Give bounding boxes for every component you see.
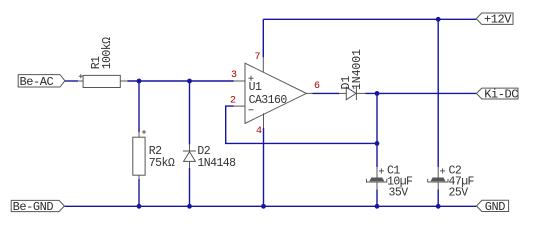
resistor R2 <box>133 130 175 179</box>
node junction R1/D2 <box>187 79 192 84</box>
wire D1 to Ki-DC <box>366 92 477 94</box>
wire C2 bottom <box>437 189 439 206</box>
svg-text:Be-AC: Be-AC <box>20 75 54 89</box>
svg-text:100kΩ: 100kΩ <box>101 37 114 69</box>
node junction +12V rail / C2 <box>436 17 441 22</box>
wire top +12V rail <box>263 18 476 20</box>
wire pin 7 riser <box>262 19 264 57</box>
svg-text:6: 6 <box>314 81 320 92</box>
resistor R1 <box>78 37 127 88</box>
node junction output / C1 <box>375 91 380 96</box>
svg-text:Ki-DC: Ki-DC <box>484 87 518 101</box>
wire Be-AC to R1 <box>65 80 78 82</box>
wire C1 bottom <box>376 189 378 206</box>
svg-text:4: 4 <box>256 126 262 137</box>
connector GND <box>477 200 509 214</box>
wire R2 top vertical <box>138 81 140 132</box>
svg-text:2: 2 <box>230 96 236 107</box>
diode D2 1N4148 <box>183 144 236 170</box>
node junction GND rail / pin4 <box>261 204 266 209</box>
wire R2 bottom vertical <box>138 179 140 206</box>
node junction R1/R2 <box>137 79 142 84</box>
wire pin 6 output to D1 <box>313 92 340 94</box>
svg-text:25V: 25V <box>449 187 469 200</box>
node junction GND rail / C1 <box>375 204 380 209</box>
svg-text:Be-GND: Be-GND <box>13 200 54 214</box>
node junction feedback / C1 <box>375 141 380 146</box>
svg-text:U1: U1 <box>249 81 262 94</box>
svg-text:GND: GND <box>485 200 506 214</box>
wire C2 top vertical <box>437 19 439 167</box>
connector Be-GND <box>11 200 64 214</box>
connector Be-AC <box>18 75 65 89</box>
node junction GND rail / R2 <box>137 204 142 209</box>
diode D1 1N4001 <box>339 49 366 100</box>
svg-text:CA3160: CA3160 <box>249 94 288 107</box>
svg-text:75kΩ: 75kΩ <box>149 157 175 170</box>
wire R1 to op-amp pin 3 <box>127 80 233 82</box>
svg-text:3: 3 <box>231 70 237 81</box>
node junction GND rail / D2 <box>187 204 192 209</box>
capacitor C2 <box>428 164 475 199</box>
wire D2 top vertical <box>189 81 191 145</box>
op-amp U1 CA3160 <box>230 52 320 137</box>
wire pin 4 down <box>263 128 265 206</box>
node junction GND rail / C2 <box>436 204 441 209</box>
wire pin 2 feedback loop <box>226 106 377 143</box>
connector Ki-DC <box>476 87 518 101</box>
svg-text:7: 7 <box>255 52 261 63</box>
svg-text:1N4001: 1N4001 <box>351 49 364 90</box>
svg-text:+12V: +12V <box>484 13 512 27</box>
capacitor C1 <box>367 164 414 199</box>
svg-text:1N4148: 1N4148 <box>197 157 236 170</box>
svg-text:35V: 35V <box>389 187 409 200</box>
connector +12V <box>476 13 513 27</box>
wire D2 bottom vertical <box>189 168 191 206</box>
wire bottom GND rail <box>65 205 477 207</box>
wire C1 top vertical <box>376 93 378 167</box>
